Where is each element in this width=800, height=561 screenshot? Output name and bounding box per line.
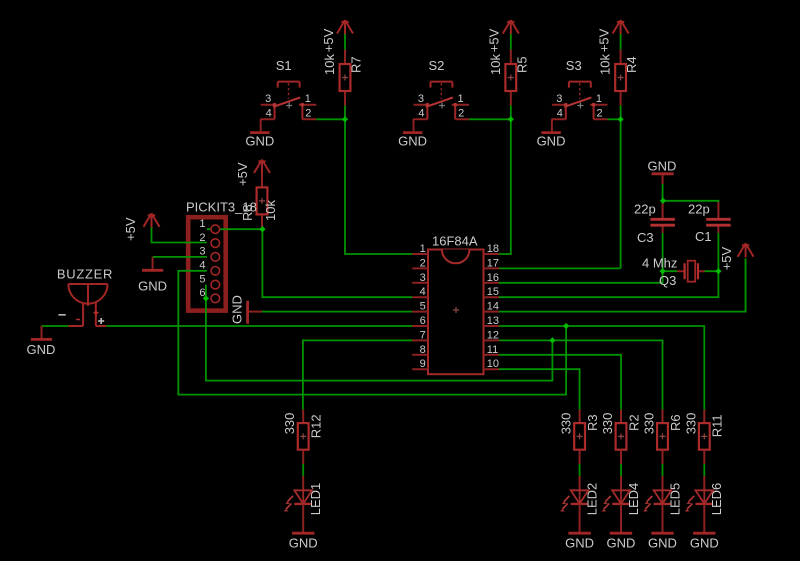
- svg-text:BUZZER: BUZZER: [57, 266, 113, 281]
- svg-text:+5V: +5V: [235, 162, 250, 186]
- capacitor C1: [717, 202, 719, 233]
- svg-text:+5V: +5V: [596, 28, 611, 52]
- junction R7/S1/pin1: [342, 116, 348, 122]
- wire +5V to R5 top: [510, 34, 512, 50]
- junction PICKIT3 pin6: [203, 295, 209, 301]
- svg-text:+5V: +5V: [487, 28, 502, 52]
- power +5V right: [738, 243, 754, 257]
- svg-text:10k: 10k: [322, 54, 337, 75]
- svg-text:Q3: Q3: [659, 273, 676, 288]
- capacitor C3: [662, 202, 664, 233]
- svg-text:5: 5: [199, 273, 205, 285]
- junction GND/C3/C1: [660, 198, 666, 204]
- svg-text:GND: GND: [648, 159, 677, 174]
- svg-text:R2: R2: [626, 414, 641, 431]
- svg-text:GND: GND: [648, 536, 677, 551]
- svg-text:16F84A: 16F84A: [432, 234, 478, 249]
- svg-text:+5V: +5V: [719, 246, 734, 270]
- switch S2: [398, 82, 469, 149]
- svg-text:18: 18: [487, 243, 499, 255]
- wire net S3 to R4 junction: [608, 118, 621, 120]
- svg-text:LED2: LED2: [585, 483, 600, 516]
- IC pin numbers left: [420, 243, 426, 370]
- resistor R8: [257, 173, 268, 229]
- wire pin12 node to PICKIT3 pin5/6: [206, 285, 553, 381]
- svg-text:R6: R6: [668, 414, 683, 431]
- wire pin13 node to PICKIT3 pin4: [178, 271, 566, 395]
- wire R4 junction down to MCU pin17: [620, 105, 622, 268]
- svg-text:R11: R11: [710, 414, 725, 437]
- wire crystal leads: [663, 270, 719, 272]
- svg-text:LED1: LED1: [308, 483, 323, 516]
- IC pin numbers right: [487, 243, 499, 370]
- resistor R4: [615, 50, 626, 106]
- svg-text:10k: 10k: [488, 54, 503, 75]
- pin numbers PICKIT3: [199, 218, 205, 299]
- svg-text:2: 2: [420, 257, 426, 269]
- svg-text:PICKIT3_18: PICKIT3_18: [186, 200, 257, 215]
- svg-text:GND: GND: [289, 536, 318, 551]
- junction pin12 node: [549, 337, 555, 343]
- connector PICKIT3 body: [188, 217, 226, 310]
- wire GND to buzzer minus: [42, 325, 69, 327]
- wire R5 junction down to MCU pin18: [499, 105, 511, 254]
- resistor R5: [505, 50, 516, 106]
- power +5V above R7: [337, 20, 353, 34]
- junction crystal left: [660, 268, 666, 274]
- junction R8/PICKIT3 pin1/pin4: [259, 226, 265, 232]
- svg-text:GND: GND: [27, 342, 56, 357]
- svg-text:R7: R7: [349, 56, 364, 73]
- ground rotated at MCU pin5: [248, 311, 262, 313]
- svg-text:7: 7: [420, 329, 426, 341]
- svg-text:3: 3: [199, 246, 205, 258]
- wire MCU pin13 to R11: [499, 326, 704, 410]
- wire MCU pin14 to +5V: [499, 259, 746, 312]
- svg-text:13: 13: [487, 315, 499, 327]
- svg-text:10k: 10k: [598, 54, 613, 75]
- svg-text:R4: R4: [624, 56, 639, 73]
- svg-text:GND: GND: [565, 536, 594, 551]
- svg-text:LED5: LED5: [667, 483, 682, 516]
- svg-text:12: 12: [487, 329, 499, 341]
- svg-text:330: 330: [600, 413, 615, 435]
- junction pin13 node: [563, 323, 569, 329]
- IC pin stubs right: [484, 254, 500, 369]
- pin circles PICKIT3: [211, 225, 220, 303]
- wire MCU pin7 to R12: [303, 340, 412, 409]
- wire MCU pin10 to R3: [499, 369, 580, 410]
- wire MCU pin17 to S3: [499, 267, 621, 269]
- junction R4/S3/pin17: [618, 116, 624, 122]
- svg-text:330: 330: [559, 413, 574, 435]
- svg-text:R12: R12: [309, 414, 324, 438]
- power +5V above R8: [254, 160, 270, 174]
- svg-text:4: 4: [199, 260, 205, 272]
- svg-text:1: 1: [199, 218, 205, 230]
- wire C1 to crystal right node: [717, 233, 719, 271]
- svg-text:5: 5: [420, 301, 426, 313]
- resistor R11 and LED6 column: [685, 410, 716, 534]
- svg-text:16: 16: [487, 272, 499, 284]
- svg-text:330: 330: [642, 413, 657, 435]
- svg-text:8: 8: [420, 344, 426, 356]
- switch S3: [537, 82, 608, 149]
- resistor R3 and LED2 column: [560, 410, 591, 534]
- svg-text:LED4: LED4: [626, 483, 641, 516]
- power +5V above R5: [503, 20, 519, 34]
- svg-text:6: 6: [420, 315, 426, 327]
- crystal Q3: [677, 270, 705, 272]
- svg-text:17: 17: [487, 257, 499, 269]
- svg-text:330: 330: [683, 413, 698, 435]
- wire MCU pin16 to crystal left node: [499, 271, 663, 283]
- svg-text:R3: R3: [585, 414, 600, 431]
- wire net S1 to R7 junction: [316, 118, 345, 120]
- switch S1: [245, 82, 316, 149]
- svg-text:GND: GND: [607, 536, 636, 551]
- svg-text:11: 11: [487, 344, 498, 356]
- svg-text:10k: 10k: [263, 200, 278, 221]
- svg-text:10: 10: [487, 358, 499, 370]
- svg-text:S3: S3: [566, 58, 582, 73]
- wire +5V right lead: [745, 259, 747, 312]
- wire MCU pin11 to R2: [499, 355, 621, 410]
- wire GND to MCU pin5: [262, 311, 412, 313]
- wire PICKIT3 pin3 to GND: [153, 256, 207, 258]
- svg-text:C1: C1: [695, 229, 712, 244]
- wire net S2 to R5 junction: [469, 118, 511, 120]
- svg-text:3: 3: [420, 272, 426, 284]
- power +5V above R4: [613, 20, 629, 34]
- svg-text:GND: GND: [138, 278, 167, 293]
- svg-text:LED6: LED6: [709, 483, 724, 516]
- buzzer polarity marks: [76, 310, 99, 319]
- svg-text:GND: GND: [690, 536, 719, 551]
- resistor R7: [340, 50, 351, 106]
- wire buzzer plus to MCU pin6: [106, 325, 412, 327]
- wire PICKIT3 pin1 to R8 junction and MCU pin4: [207, 229, 412, 297]
- svg-text:C3: C3: [637, 230, 654, 245]
- ground under buzzer: [31, 326, 52, 339]
- wire R7 junction down to MCU pin1: [345, 105, 412, 254]
- svg-text:1: 1: [420, 243, 426, 255]
- svg-text:S2: S2: [429, 58, 445, 73]
- resistor R6 and LED5 column: [643, 410, 674, 534]
- svg-text:GND: GND: [229, 295, 244, 324]
- resistor R2 and LED4 column: [602, 410, 633, 534]
- IC pin stubs left: [412, 254, 428, 369]
- svg-text:15: 15: [487, 286, 499, 298]
- wire MCU pin12 to R6: [499, 340, 663, 409]
- svg-text:4 Mhz: 4 Mhz: [642, 256, 677, 271]
- wire +5V to R7 top: [344, 34, 346, 50]
- junction R5/S2/pin18: [508, 116, 514, 122]
- power +5V left of PICKIT3: [144, 213, 160, 227]
- svg-text:S1: S1: [276, 58, 292, 73]
- svg-text:330: 330: [282, 413, 297, 435]
- svg-text:22p: 22p: [634, 202, 656, 217]
- svg-text:+5V: +5V: [123, 217, 138, 241]
- wire GND node to caps C3 C1: [663, 184, 719, 203]
- resistor R12 and LED1 column: [284, 410, 315, 534]
- junction crystal right: [715, 268, 721, 274]
- svg-text:14: 14: [487, 301, 499, 313]
- wire C3 to crystal left node: [662, 233, 664, 283]
- wire PICKIT3 pin2 to +5V: [152, 227, 207, 243]
- wire MCU pin15 to crystal right node: [499, 271, 718, 297]
- svg-text:22p: 22p: [688, 202, 710, 217]
- svg-text:2: 2: [199, 232, 205, 244]
- svg-text:4: 4: [420, 286, 426, 298]
- svg-text:9: 9: [420, 358, 426, 370]
- wire +5V to R4 top: [620, 34, 622, 50]
- svg-text:+5V: +5V: [321, 28, 336, 52]
- ground under PICKIT3 pin3: [142, 257, 163, 270]
- svg-text:R5: R5: [514, 56, 529, 73]
